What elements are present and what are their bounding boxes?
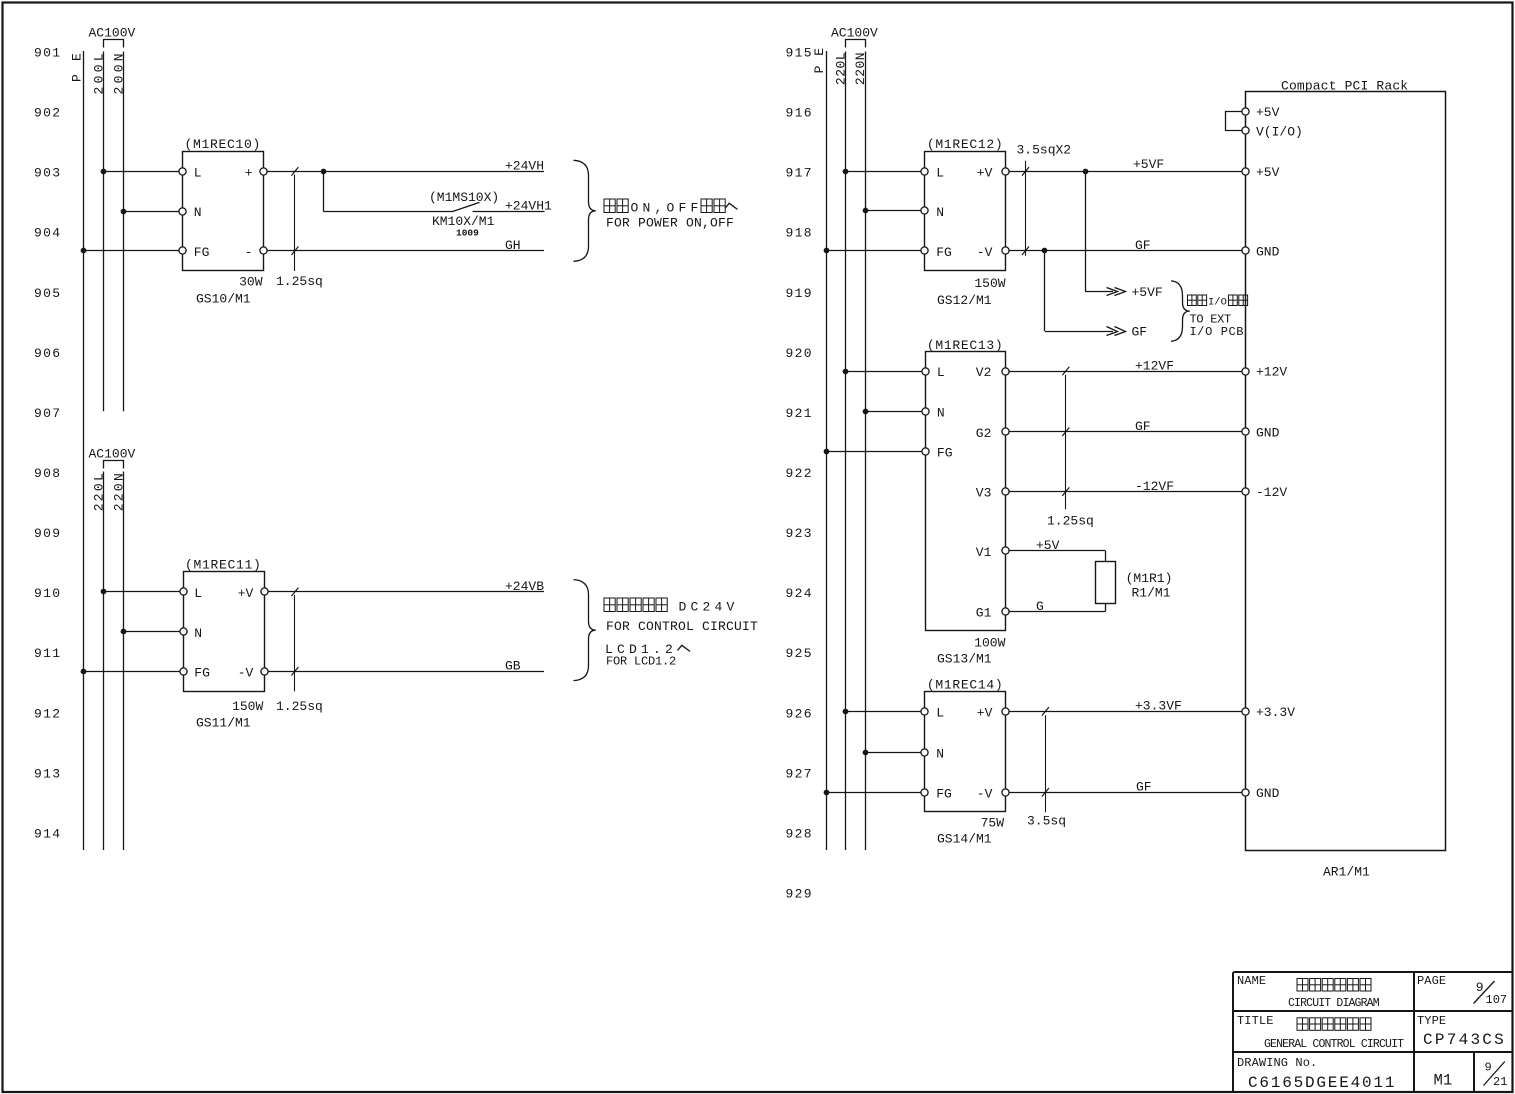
svg-text:FOR CONTROL CIRCUIT: FOR CONTROL CIRCUIT xyxy=(606,619,758,634)
title block TYPE cell: CP743CS xyxy=(1417,1014,1506,1049)
wire GB from M1REC11 -V output xyxy=(268,659,544,674)
svg-text:907: 907 xyxy=(34,406,61,421)
cable size 1.25sq for M1REC11 outputs xyxy=(276,588,323,714)
svg-text:TITLE: TITLE xyxy=(1237,1014,1274,1028)
svg-text:(M1REC13): (M1REC13) xyxy=(927,338,1004,353)
M1REC14 pin FG xyxy=(921,786,952,801)
svg-text:M1: M1 xyxy=(1434,1071,1453,1089)
svg-text:220N: 220N xyxy=(853,52,868,85)
AC100V source label (lower left) xyxy=(89,446,136,468)
M1REC13 pin V1 xyxy=(976,545,1009,560)
svg-text:(M1REC11): (M1REC11) xyxy=(185,558,262,573)
M1REC12 pin L xyxy=(921,166,944,181)
svg-text:220L: 220L xyxy=(833,52,848,85)
rack terminal V(I/O) xyxy=(1242,125,1303,140)
net 220L (right line bus) xyxy=(833,52,848,851)
svg-text:(M1MS10X): (M1MS10X) xyxy=(429,190,499,205)
wire +5VF from M1REC12 +V to rack +5V xyxy=(1009,157,1241,172)
svg-text:(M1REC10): (M1REC10) xyxy=(185,137,262,152)
title block sheet page cell: 9/21 xyxy=(1484,1061,1508,1089)
M1REC10 pin FG xyxy=(179,245,210,260)
M1REC11 rating 150W and name GS11/M1 xyxy=(196,699,263,730)
M1REC13 pin V3 xyxy=(976,486,1009,501)
wire PE to M1REC10 pin FG xyxy=(81,248,183,254)
M1REC13 pin N xyxy=(922,406,945,421)
rack terminal +12V xyxy=(1242,365,1288,380)
node on +24VH feeding KM10X contact xyxy=(321,169,327,212)
M1REC12 pin N xyxy=(921,205,944,220)
svg-text:L: L xyxy=(936,706,944,721)
svg-text:926: 926 xyxy=(786,706,813,721)
svg-text:912: 912 xyxy=(34,706,61,721)
M1REC11 pin -V xyxy=(238,665,268,680)
svg-text:107: 107 xyxy=(1486,993,1508,1007)
power supply GS10/M1 (M1REC10) body xyxy=(183,137,264,270)
svg-text:-V: -V xyxy=(977,245,993,260)
svg-text:1.25sq: 1.25sq xyxy=(276,274,323,289)
svg-text:927: 927 xyxy=(786,766,813,781)
svg-text:N: N xyxy=(936,205,944,220)
net 220N (lower left neutral bus) xyxy=(112,471,127,850)
svg-text:910: 910 xyxy=(34,586,61,601)
svg-text:923: 923 xyxy=(786,526,813,541)
svg-text:917: 917 xyxy=(786,166,813,181)
Compact PCI Rack AR1/M1 enclosure xyxy=(1246,78,1446,879)
net 220N (right neutral bus) xyxy=(853,52,868,851)
rack terminal +5V (top) xyxy=(1242,105,1280,120)
svg-text:GF: GF xyxy=(1135,419,1151,434)
svg-text:FG: FG xyxy=(937,446,953,461)
svg-text:928: 928 xyxy=(786,826,813,841)
wire 220L to M1REC14 pin L xyxy=(843,709,925,715)
wire +3.3VF from M1REC14 +V to rack +3.3V xyxy=(1009,699,1242,714)
AC100V source label (top left) xyxy=(89,25,136,47)
svg-text:+V: +V xyxy=(977,166,993,181)
M1REC13 pin L xyxy=(922,365,945,380)
svg-text:906: 906 xyxy=(34,346,61,361)
svg-text:905: 905 xyxy=(34,286,61,301)
svg-text:903: 903 xyxy=(34,166,61,181)
svg-text:I/O PCB: I/O PCB xyxy=(1190,325,1245,339)
M1REC14 pin +V xyxy=(977,706,1009,721)
svg-text:100W: 100W xyxy=(974,635,1005,650)
svg-text:914: 914 xyxy=(34,826,61,841)
svg-text:922: 922 xyxy=(786,466,813,481)
power supply GS14/M1 (M1REC14) body xyxy=(925,677,1006,811)
svg-text:+24VH1: +24VH1 xyxy=(505,199,552,214)
resistor R1/M1 (M1R1) xyxy=(1096,551,1173,612)
M1REC13 pin V2 xyxy=(976,365,1009,380)
svg-text:P E: P E xyxy=(812,47,827,74)
wire +24VH from M1REC10 + output xyxy=(267,159,544,174)
svg-text:GND: GND xyxy=(1256,786,1280,801)
svg-text:+5VF: +5VF xyxy=(1133,157,1164,172)
wire 220L to M1REC12 pin L xyxy=(843,169,925,175)
svg-text:GB: GB xyxy=(505,659,521,674)
svg-text:GS13/M1: GS13/M1 xyxy=(937,651,992,666)
svg-text:220L: 220L xyxy=(92,471,107,511)
svg-text:+12VF: +12VF xyxy=(1135,358,1174,373)
svg-text:3.5sqX2: 3.5sqX2 xyxy=(1017,142,1072,157)
svg-text:3.5sq: 3.5sq xyxy=(1027,814,1066,829)
svg-text:C6165DGEE4011: C6165DGEE4011 xyxy=(1248,1074,1396,1092)
M1REC12 pin +V xyxy=(977,166,1009,181)
svg-text:GND: GND xyxy=(1256,425,1280,440)
svg-text:G: G xyxy=(1036,599,1044,614)
svg-text:908: 908 xyxy=(34,466,61,481)
M1REC10 pin - xyxy=(245,245,267,260)
net 220L (lower left line bus) xyxy=(92,471,107,850)
M1REC12 rating 150W and name GS12/M1 xyxy=(937,276,1006,308)
wire 220L to M1REC13 pin L xyxy=(843,369,926,375)
svg-text:919: 919 xyxy=(786,286,813,301)
svg-text:915: 915 xyxy=(786,46,813,61)
cable size 1.25sq for M1REC13 outputs xyxy=(1047,367,1094,529)
svg-text:L: L xyxy=(937,365,945,380)
rack terminal +5V xyxy=(1242,165,1280,180)
net PE (left protective earth bus) xyxy=(70,50,85,850)
svg-text:V3: V3 xyxy=(976,486,992,501)
wire GF from M1REC12 -V to rack GND xyxy=(1009,238,1241,253)
svg-text:R1/M1: R1/M1 xyxy=(1132,586,1171,601)
node on +5VF branching to ext I/O PCB xyxy=(1083,169,1089,292)
node on GF branching to ext I/O PCB xyxy=(1042,248,1048,331)
arrow +5VF to external I/O PCB xyxy=(1085,285,1163,300)
svg-text:-12VF: -12VF xyxy=(1135,479,1174,494)
svg-text:929: 929 xyxy=(786,886,813,901)
wire 200L to M1REC10 pin L xyxy=(101,169,183,175)
svg-text:1.25sq: 1.25sq xyxy=(1047,513,1094,528)
svg-text:G2: G2 xyxy=(976,426,992,441)
wire 220L to M1REC11 pin L xyxy=(101,589,183,595)
wire G from M1REC13 G1 to bleeder resistor xyxy=(1009,599,1106,614)
cable size 1.25sq for M1REC10 outputs xyxy=(276,167,323,289)
svg-text:N: N xyxy=(936,746,944,761)
svg-text:FOR POWER ON,OFF: FOR POWER ON,OFF xyxy=(606,215,734,230)
svg-text:918: 918 xyxy=(786,226,813,241)
svg-text:V1: V1 xyxy=(976,545,992,560)
net PE (right protective earth bus) xyxy=(812,47,827,850)
wire 200N to M1REC10 pin N xyxy=(121,209,183,215)
wire PE to M1REC13 pin FG xyxy=(824,449,926,455)
svg-text:CP743CS: CP743CS xyxy=(1423,1031,1506,1049)
M1REC11 pin +V xyxy=(238,586,268,601)
brace to external I/O PCB xyxy=(1171,281,1248,341)
svg-text:+V: +V xyxy=(977,706,993,721)
M1REC14 pin N xyxy=(921,746,944,761)
svg-text:AC100V: AC100V xyxy=(89,446,136,461)
svg-text:(M1R1): (M1R1) xyxy=(1126,571,1173,586)
wire GF from M1REC13 G2 to rack GND xyxy=(1009,419,1242,434)
svg-text:GH: GH xyxy=(505,238,521,253)
switch contact KM10X/M1 (M1MS10X) page ref 1009 xyxy=(323,190,499,239)
wire +24VH1 from KM10X contact xyxy=(473,199,552,214)
svg-text:916: 916 xyxy=(786,106,813,121)
svg-text:FG: FG xyxy=(194,665,210,680)
svg-text:-12V: -12V xyxy=(1256,485,1287,500)
svg-text:PAGE: PAGE xyxy=(1417,974,1446,988)
svg-text:913: 913 xyxy=(34,766,61,781)
svg-text:+12V: +12V xyxy=(1256,365,1287,380)
M1REC13 pin FG xyxy=(922,446,953,461)
svg-text:21: 21 xyxy=(1493,1075,1507,1089)
svg-text:30W: 30W xyxy=(239,274,263,289)
svg-text:GS10/M1: GS10/M1 xyxy=(196,292,251,307)
wire PE to M1REC14 pin FG xyxy=(824,790,925,796)
cable size 3.5sqX2 for M1REC12 outputs xyxy=(1017,142,1072,255)
svg-text:FG: FG xyxy=(936,245,952,260)
svg-text:NAME: NAME xyxy=(1237,974,1266,988)
svg-text:924: 924 xyxy=(786,586,813,601)
svg-text:911: 911 xyxy=(34,646,61,661)
M1REC11 pin L xyxy=(180,586,202,601)
svg-text:AC100V: AC100V xyxy=(89,25,136,40)
svg-text:200N: 200N xyxy=(112,50,127,94)
M1REC10 pin + xyxy=(245,166,267,181)
M1REC14 pin -V xyxy=(977,786,1009,801)
svg-text:GS11/M1: GS11/M1 xyxy=(196,716,251,731)
svg-text:150W: 150W xyxy=(974,276,1005,291)
M1REC14 pin L xyxy=(921,706,944,721)
svg-text:-V: -V xyxy=(238,665,254,680)
M1REC14 rating 75W and name GS14/M1 xyxy=(937,815,1004,846)
wire PE to M1REC12 pin FG xyxy=(824,248,925,254)
svg-text:V(I/O): V(I/O) xyxy=(1256,125,1303,140)
svg-text:921: 921 xyxy=(786,406,813,421)
power supply GS12/M1 (M1REC12) body xyxy=(925,137,1006,270)
wire +12VF from M1REC13 V2 to rack +12V xyxy=(1009,358,1242,373)
M1REC13 rating 100W and name GS13/M1 xyxy=(937,635,1006,666)
wire GH from M1REC10 - output xyxy=(267,238,544,253)
svg-text:GS14/M1: GS14/M1 xyxy=(937,832,992,847)
svg-text:GS12/M1: GS12/M1 xyxy=(937,293,992,308)
AC100V source label (top right) xyxy=(831,25,878,47)
svg-text:GF: GF xyxy=(1135,238,1151,253)
title block PAGE cell: 9/107 xyxy=(1417,974,1507,1007)
wire GF from M1REC14 -V to rack GND xyxy=(1009,780,1242,795)
svg-text:200L: 200L xyxy=(92,50,107,94)
M1REC11 pin FG xyxy=(180,665,210,680)
wire 220N to M1REC12 pin N xyxy=(863,208,925,214)
svg-text:920: 920 xyxy=(786,346,813,361)
net 200N (top left neutral bus) xyxy=(112,50,127,411)
svg-text:+5VF: +5VF xyxy=(1132,285,1163,300)
M1REC12 pin -V xyxy=(977,245,1009,260)
svg-text:+V: +V xyxy=(238,586,254,601)
svg-text:Compact PCI Rack: Compact PCI Rack xyxy=(1281,78,1408,93)
svg-text:FG: FG xyxy=(936,786,952,801)
svg-text:AC100V: AC100V xyxy=(831,25,878,40)
title block table xyxy=(1233,972,1513,1092)
rack terminal GND (row 921) xyxy=(1242,425,1280,440)
wire +24VB from M1REC11 +V output xyxy=(268,579,545,594)
svg-text:GF: GF xyxy=(1136,780,1152,795)
M1REC10 rating 30W and name GS10/M1 xyxy=(196,274,263,306)
cable size 3.5sq for M1REC14 outputs xyxy=(1027,707,1066,828)
brace to power ON/OFF circuit xyxy=(574,160,738,261)
svg-text:G1: G1 xyxy=(976,606,992,621)
svg-text:901: 901 xyxy=(34,46,61,61)
svg-text:-: - xyxy=(245,245,253,260)
title block TITLE cell: GENERAL CONTROL CIRCUIT xyxy=(1237,1014,1404,1051)
rack terminal GND (row 918) xyxy=(1242,244,1280,259)
M1REC11 pin N xyxy=(180,626,202,641)
left row numbers 901-914 xyxy=(34,46,61,842)
M1REC10 pin N xyxy=(179,205,202,220)
svg-text:+24VH: +24VH xyxy=(505,159,544,174)
M1REC10 pin L xyxy=(179,166,202,181)
svg-text:AR1/M1: AR1/M1 xyxy=(1323,865,1370,880)
svg-text:V2: V2 xyxy=(976,365,992,380)
wire 220N to M1REC14 pin N xyxy=(863,750,925,756)
svg-text:220N: 220N xyxy=(112,471,127,511)
svg-text:(M1REC14): (M1REC14) xyxy=(927,677,1004,692)
svg-text:+5V: +5V xyxy=(1256,165,1280,180)
svg-text:+: + xyxy=(245,166,253,181)
svg-text:9: 9 xyxy=(1485,1061,1492,1075)
svg-text:L: L xyxy=(936,166,944,181)
svg-text:FG: FG xyxy=(194,245,210,260)
svg-text:FOR LCD1.2: FOR LCD1.2 xyxy=(606,655,676,669)
svg-text:1009: 1009 xyxy=(456,228,479,239)
svg-text:1.25sq: 1.25sq xyxy=(276,699,323,714)
svg-text:+3.3VF: +3.3VF xyxy=(1135,699,1182,714)
rack terminal -12V xyxy=(1242,485,1288,500)
arrow GF to external I/O PCB xyxy=(1045,324,1147,339)
svg-text:N: N xyxy=(194,205,202,220)
power supply GS13/M1 (M1REC13) body xyxy=(926,338,1006,631)
svg-text:75W: 75W xyxy=(981,815,1005,830)
svg-text:GND: GND xyxy=(1256,244,1280,259)
rack terminal GND (row 927) xyxy=(1242,786,1280,801)
rack terminal +3.3V xyxy=(1242,705,1295,720)
svg-text:150W: 150W xyxy=(232,699,263,714)
svg-text:L: L xyxy=(194,166,202,181)
wire 220N to M1REC11 pin N xyxy=(121,629,183,635)
net 200L (top left line bus) xyxy=(92,50,107,411)
svg-text:DC24V: DC24V xyxy=(679,599,739,614)
brace to control circuit / LCD xyxy=(574,580,759,681)
svg-text:GF: GF xyxy=(1132,324,1148,339)
svg-text:I/O: I/O xyxy=(1208,296,1227,308)
svg-text:DRAWING No.: DRAWING No. xyxy=(1237,1056,1317,1070)
svg-text:-V: -V xyxy=(977,786,993,801)
svg-text:925: 925 xyxy=(786,646,813,661)
wire -12VF from M1REC13 V3 to rack -12V xyxy=(1009,479,1242,494)
svg-text:(M1REC12): (M1REC12) xyxy=(927,137,1004,152)
wire 220N to M1REC13 pin N xyxy=(863,409,926,415)
svg-text:909: 909 xyxy=(34,526,61,541)
svg-text:+3.3V: +3.3V xyxy=(1256,705,1295,720)
title block NAME cell: CIRCUIT DIAGRAM xyxy=(1237,974,1380,1010)
wire +5V from M1REC13 V1 to bleeder resistor xyxy=(1009,538,1106,553)
M1REC13 pin G1 xyxy=(976,606,1009,621)
M1REC12 pin FG xyxy=(921,245,952,260)
svg-text:+5V: +5V xyxy=(1256,105,1280,120)
svg-text:902: 902 xyxy=(34,106,61,121)
svg-text:CIRCUIT DIAGRAM: CIRCUIT DIAGRAM xyxy=(1288,997,1380,1010)
wire PE to M1REC11 pin FG xyxy=(81,669,183,675)
svg-text:+5V: +5V xyxy=(1036,538,1060,553)
right row numbers 915-929 xyxy=(786,46,813,902)
svg-text:N: N xyxy=(937,406,945,421)
power supply GS11/M1 (M1REC11) body xyxy=(184,558,265,692)
svg-text:GENERAL CONTROL CIRCUIT: GENERAL CONTROL CIRCUIT xyxy=(1264,1038,1404,1051)
svg-text:ON,OFF: ON,OFF xyxy=(631,200,703,215)
svg-text:+24VB: +24VB xyxy=(505,579,544,594)
svg-text:TYPE: TYPE xyxy=(1417,1014,1446,1028)
svg-text:9: 9 xyxy=(1476,980,1484,995)
svg-text:P E: P E xyxy=(70,50,85,82)
svg-text:904: 904 xyxy=(34,226,61,241)
svg-text:L: L xyxy=(194,586,202,601)
M1REC13 pin G2 xyxy=(976,426,1009,441)
title block DRAWING No. cell: C6165DGEE4011 xyxy=(1237,1056,1396,1092)
jumper wire between rack +5V and V(I/O) xyxy=(1226,112,1242,131)
svg-text:N: N xyxy=(194,626,202,641)
title block sheet cell: M1 xyxy=(1434,1071,1453,1089)
